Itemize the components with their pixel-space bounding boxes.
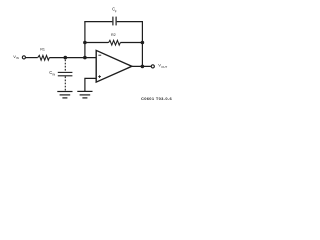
capacitor CIN xyxy=(58,72,73,75)
resistor R1 xyxy=(37,55,49,60)
node junction dot at feedback tap xyxy=(83,56,87,60)
svg-text:R2: R2 xyxy=(111,33,116,37)
svg-text:IN: IN xyxy=(52,72,55,76)
wire feedback left vertical xyxy=(84,22,86,58)
wire R2 branch left xyxy=(85,42,108,44)
node junction dot feedback left at R2 xyxy=(83,41,87,45)
svg-text:IN: IN xyxy=(16,56,19,60)
input terminal VIN xyxy=(22,56,25,59)
svg-text:R1: R1 xyxy=(40,47,45,51)
wire op-amp output xyxy=(132,65,151,67)
node junction dot feedback right at R2 xyxy=(141,41,145,45)
op-amp inverting pin minus sign xyxy=(98,54,101,56)
op-amp U1 xyxy=(96,50,132,82)
svg-text:OUT: OUT xyxy=(161,65,167,69)
output terminal VOUT xyxy=(151,65,154,68)
wire R2 to feedback right vertical xyxy=(120,42,142,44)
ground at noninverting input xyxy=(77,91,92,98)
node junction dot at output xyxy=(141,65,145,69)
wire op-amp noninverting input to ground xyxy=(85,78,96,91)
node junction dot at CIN tap xyxy=(64,56,68,60)
ground under CIN xyxy=(57,92,72,98)
op-amp noninverting pin plus sign xyxy=(98,76,101,78)
wire VIN terminal to R1 xyxy=(26,57,38,59)
resistor R2 xyxy=(108,40,120,45)
capacitor CF label xyxy=(112,7,117,14)
wire R1 to op-amp inverting input xyxy=(49,57,96,59)
svg-text:F: F xyxy=(115,9,117,13)
wire CF to feedback right vertical xyxy=(117,21,143,23)
dashed wire CIN to ground xyxy=(64,76,66,91)
node VOUT label xyxy=(158,63,167,69)
capacitor CF xyxy=(113,17,116,26)
capacitor CIN label xyxy=(49,70,55,76)
node VIN label xyxy=(13,54,19,60)
svg-text:C0601 T03-0-6: C0601 T03-0-6 xyxy=(141,96,173,101)
wire feedback right vertical xyxy=(141,22,143,67)
dashed wire junction to CIN xyxy=(64,60,66,72)
wire top branch left to CF xyxy=(84,21,112,23)
